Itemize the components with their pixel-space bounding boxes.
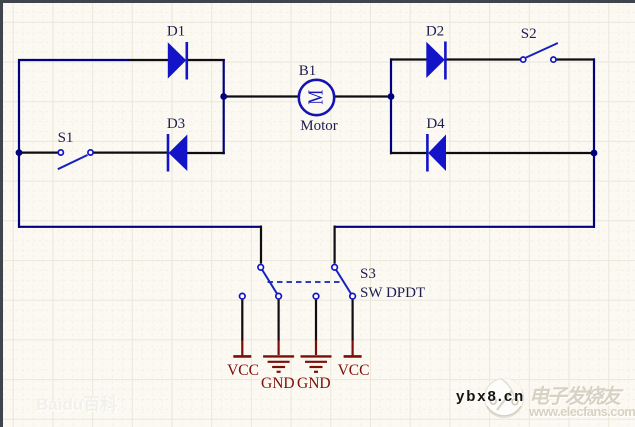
wire: S1 to D3 cathode [93,152,169,154]
watermark: ybx8.cn text [456,388,525,405]
svg-text:GND: GND [297,375,331,392]
svg-text:VCC: VCC [227,362,259,379]
watermark: Baidu Baike (faint, bottom-left) [36,390,117,415]
ground GND 1 [261,340,295,392]
wire: S3 pole 2 drop [334,226,336,264]
svg-text:S2: S2 [521,26,537,42]
wire: VCC 1 lead [241,299,243,341]
wire: bottom rail right [334,226,595,228]
wire: left vertical rail [18,59,20,228]
svg-text:M: M [305,90,328,105]
wire: D3 anode to corner [186,152,225,154]
switch S3 (DPDT) [240,265,356,300]
motor B1 [299,80,334,115]
svg-text:B1: B1 [299,63,317,79]
svg-text:D2: D2 [426,24,444,40]
power VCC 2 [338,340,370,379]
wire: motor left lead [224,95,299,97]
wire: D4 anode lead right [445,152,595,154]
svg-text:S1: S1 [58,130,74,146]
switch S1 [58,150,93,169]
svg-text:GND: GND [261,375,295,392]
switch S2 [521,43,558,62]
wire: S1 left lead [18,152,59,154]
wire: right bridge left vertical [390,58,392,154]
watermark: ybx8.cn logo disc [483,377,525,419]
node: junction right bridge / motor [388,93,395,100]
watermark: elecfans Chinese [529,380,619,409]
svg-text:D1: D1 [167,24,185,40]
wire: left bridge vertical [223,59,225,154]
wire: D2 anode lead [390,58,427,60]
watermark: elecfans url [529,404,635,419]
svg-text:S3: S3 [360,266,376,282]
node: junction left bridge / motor [220,93,227,100]
wire: bottom rail left [18,226,262,228]
power VCC 1 [227,340,259,379]
wire: VCC 2 lead [352,299,354,341]
wire: D4 cathode lead left [390,152,429,154]
wire: right vertical rail [593,58,595,228]
svg-text:VCC: VCC [338,362,370,379]
svg-text:D4: D4 [426,116,445,132]
wire: S2 to right corner [556,58,596,60]
diode D4 [427,134,446,172]
wire: GND 1 lead [278,299,280,341]
diode D3 [168,134,187,172]
wire: S3 pole 1 drop [260,226,262,264]
ground GND 2 [297,340,331,392]
diode D1 [168,42,187,80]
wire: D2 cathode to S2 [445,58,521,60]
wire: motor right lead [335,95,392,97]
wire: D1 cathode to corner [186,59,225,61]
node: junction left rail / S1 [16,149,23,156]
wire: GND 2 lead [315,299,317,341]
svg-text:D3: D3 [167,116,185,132]
node: junction right rail / D4 [591,150,598,157]
wire: top-left rail [18,59,169,61]
svg-text:Motor: Motor [300,118,338,134]
svg-text:SW DPDT: SW DPDT [360,285,425,301]
diode D2 [426,42,445,80]
